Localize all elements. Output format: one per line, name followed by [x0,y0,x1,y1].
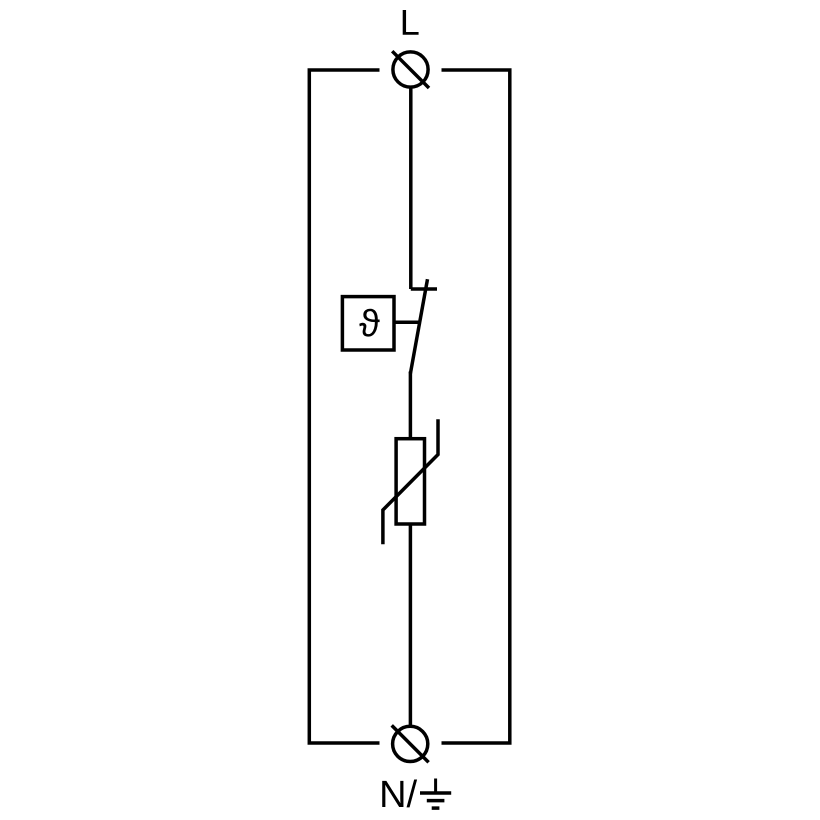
ground symbol: short bar [432,806,440,810]
thermal sensor label (theta) [359,309,379,337]
ground symbol: stem [434,779,437,794]
wire: varistor to terminal N [409,524,413,727]
enclosure outline right half (top edge, right side, bottom edge) [442,70,510,743]
terminal N (circle) [393,726,428,761]
ground symbol: middle bar [427,799,445,803]
ground symbol: long bar [420,791,451,795]
thermal sensor box [342,297,394,350]
terminal L (circle) [393,52,428,87]
wire: terminal L to disconnect switch [409,87,413,289]
terminal N (diagonal stroke) [392,725,429,762]
thermal disconnect switch: blade [410,279,427,373]
thermal disconnect switch: fixed contact bar [411,287,437,291]
label L [403,10,419,35]
varistor diagonal with tails [383,419,438,544]
mechanical link: sensor box to blade [394,321,420,325]
label N/ [382,779,417,807]
varistor body [396,439,424,524]
terminal L (diagonal stroke) [392,51,429,88]
enclosure outline left half (top edge, left side, bottom edge) [309,70,379,743]
wire: switch to varistor [409,372,413,441]
